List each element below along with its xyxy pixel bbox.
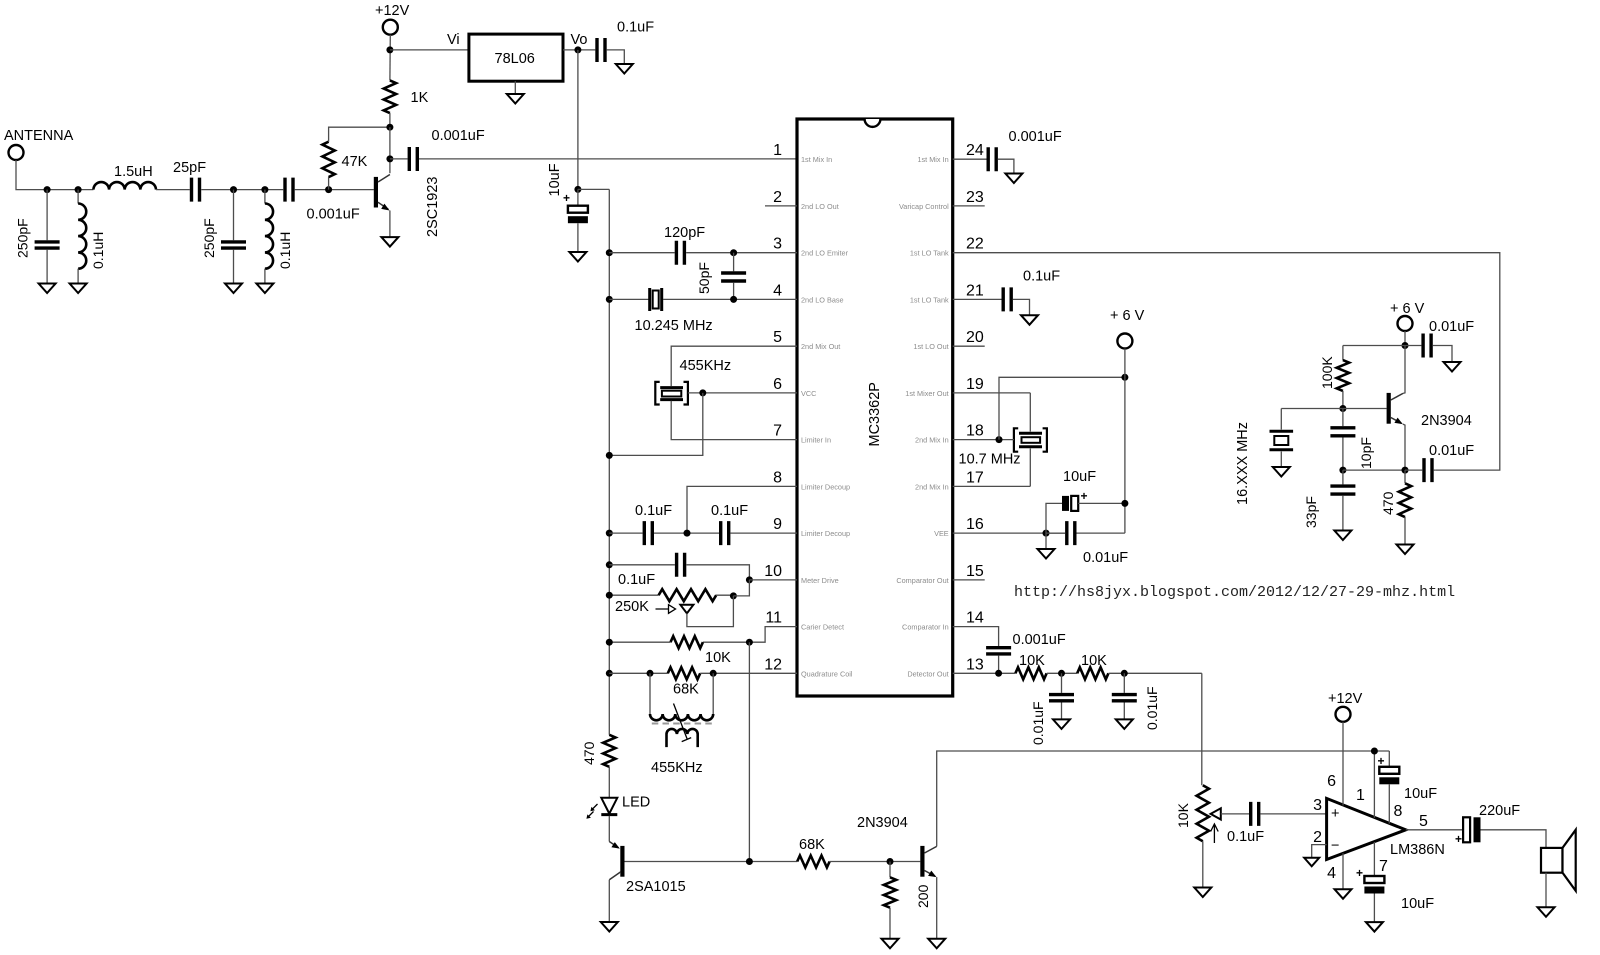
svg-text:0.01uF: 0.01uF	[1429, 319, 1474, 335]
ground (10K pot)	[1194, 888, 1211, 898]
wire crystal to pin 4	[663, 298, 797, 300]
wire to pin 9	[730, 532, 797, 534]
svg-text:250pF: 250pF	[15, 218, 31, 258]
wire carrier detect to base	[748, 642, 750, 861]
svg-text:2nd LO Emiter: 2nd LO Emiter	[801, 249, 849, 258]
svg-text:2SA1015: 2SA1015	[626, 879, 686, 895]
svg-text:68K: 68K	[799, 837, 825, 853]
svg-text:220uF: 220uF	[1479, 803, 1520, 819]
svg-text:470: 470	[581, 741, 597, 765]
node A2	[75, 186, 82, 193]
node collector / 0.001uF	[386, 155, 393, 162]
svg-text:1: 1	[1356, 787, 1365, 804]
LED D1	[601, 798, 617, 814]
node base/200	[887, 858, 894, 865]
svg-text:MC3362P: MC3362P	[867, 382, 883, 446]
svg-text:1st LO Tank: 1st LO Tank	[910, 249, 949, 258]
resistor 470 (LED)	[603, 735, 615, 767]
svg-text:5: 5	[773, 329, 782, 346]
node pin13	[995, 670, 1002, 677]
wire pin 11	[703, 627, 797, 643]
svg-text:+ 6 V: + 6 V	[1390, 301, 1425, 317]
svg-text:1st Mix In: 1st Mix In	[801, 155, 832, 164]
wire filter case to pin 6	[688, 392, 797, 394]
ceramic filter 455KHz	[660, 388, 683, 400]
ground (Vo bypass)	[616, 64, 633, 74]
wire +12V down	[389, 35, 391, 81]
node filter2	[1121, 670, 1128, 677]
svg-text:10pF: 10pF	[1358, 437, 1374, 469]
ground (pin7 cap)	[1366, 922, 1383, 932]
capacitor 33pF	[1342, 470, 1344, 484]
node 1K/47K/collector	[386, 124, 393, 131]
svg-text:0.001uF: 0.001uF	[307, 207, 360, 223]
10K wiper	[1211, 808, 1221, 819]
node 6V rail	[574, 186, 581, 193]
svg-text:2N3904: 2N3904	[857, 815, 908, 831]
svg-text:0.01uF: 0.01uF	[1429, 443, 1474, 459]
svg-text:1.5uH: 1.5uH	[114, 164, 153, 180]
wire pin 19	[953, 392, 1031, 394]
svg-text:50pF: 50pF	[696, 262, 712, 294]
pin 23 stub	[953, 205, 985, 207]
capacitor 10uF (bypass) electrolytic	[1388, 751, 1390, 767]
svg-text:13: 13	[966, 656, 984, 673]
wire Vo	[563, 49, 595, 51]
svg-text:21: 21	[966, 282, 984, 299]
resistor 68K (squelch)	[797, 856, 829, 868]
250K adjust arrow	[656, 605, 676, 614]
ground (78L06)	[514, 81, 516, 94]
node osc base	[1339, 405, 1346, 412]
svg-text:0.1uF: 0.1uF	[1227, 829, 1264, 845]
svg-text:22: 22	[966, 236, 984, 253]
capacitor 250pF (1st)	[46, 190, 48, 241]
svg-text:+: +	[563, 191, 570, 205]
capacitor 0.01uF (VEE)	[1067, 521, 1075, 545]
speaker SP1	[1541, 848, 1563, 873]
capacitor 0.1uF (pin21)	[1003, 287, 1011, 311]
node osc vcc	[1402, 342, 1409, 349]
pin 1 wire	[1373, 751, 1375, 818]
capacitor 10uF (VEE) electrolytic	[1046, 503, 1062, 533]
resistor 10K (carrier detect)	[671, 636, 703, 648]
svg-text:16: 16	[966, 516, 984, 533]
wire	[201, 189, 283, 191]
svg-text:Limiter In: Limiter In	[801, 436, 831, 445]
svg-text:10: 10	[764, 563, 782, 580]
svg-text:1: 1	[773, 142, 782, 159]
resistor 200	[889, 862, 891, 878]
ground (33pF)	[1334, 531, 1351, 541]
wire pin 13	[953, 672, 1016, 674]
wire Vo rail down	[577, 50, 579, 190]
wire 68K to 2N3904 base	[830, 861, 921, 863]
svg-text:0.1uF: 0.1uF	[635, 503, 672, 519]
svg-text:2nd Mix In: 2nd Mix In	[915, 436, 949, 445]
svg-text:0.1uH: 0.1uH	[90, 232, 106, 269]
capacitor 120pF	[676, 241, 684, 265]
node bus meter row	[606, 561, 613, 568]
ground (2SA1015)	[601, 922, 618, 932]
svg-text:+: +	[1455, 832, 1462, 846]
capacitor 0.001uF (comparator)	[986, 648, 1011, 654]
wire Vi to regulator	[390, 49, 469, 51]
wire divider to emitter	[1343, 469, 1405, 471]
capacitor 0.001uF (collector out)	[390, 158, 408, 160]
capacitor 0.01uF (af filter 2)	[1123, 673, 1125, 693]
resistor 1K	[384, 80, 396, 113]
ground (470 osc)	[1397, 545, 1414, 555]
pin 6 wire	[1342, 722, 1344, 806]
wire pin 21	[953, 298, 1002, 300]
svg-text:0.1uF: 0.1uF	[711, 503, 748, 519]
capacitor 0.01uF (osc out)	[1424, 458, 1432, 482]
ground (0.1uH 1st)	[70, 284, 87, 294]
ground (af filter 1)	[1053, 719, 1070, 729]
svg-text:2nd LO Out: 2nd LO Out	[801, 202, 839, 211]
antenna terminal	[9, 145, 24, 160]
svg-text:Vi: Vi	[447, 32, 460, 48]
250K wiper	[680, 605, 693, 614]
capacitor 0.01uF (osc vcc)	[1405, 345, 1421, 347]
svg-text:7: 7	[773, 423, 782, 440]
svg-text:4: 4	[773, 282, 782, 299]
svg-text:10uF: 10uF	[1404, 786, 1437, 802]
svg-text:12: 12	[764, 656, 782, 673]
ground (250pF 2nd)	[225, 284, 242, 294]
svg-text:+: +	[1356, 866, 1363, 880]
wire case to bus	[609, 393, 703, 456]
svg-text:0.1uF: 0.1uF	[618, 572, 655, 588]
resistor 470 (osc)	[1399, 483, 1411, 517]
wire pin9 row	[609, 532, 642, 534]
node filter1	[1058, 670, 1065, 677]
ground (10uF)	[569, 252, 586, 262]
potentiometer 250K	[609, 594, 658, 596]
node bus 250K	[606, 592, 613, 599]
IC U1 MC3362P body	[797, 119, 953, 696]
svg-text:24: 24	[966, 142, 984, 159]
svg-text:1st LO Out: 1st LO Out	[913, 342, 948, 351]
svg-text:250pF: 250pF	[201, 218, 217, 258]
node base 2SC1923	[325, 186, 332, 193]
capacitor 0.1uF (meter drive)	[609, 564, 675, 566]
ground (pin21)	[1021, 315, 1038, 325]
svg-text:6: 6	[1327, 773, 1336, 790]
svg-text:1K: 1K	[411, 90, 429, 106]
node Vi	[386, 46, 393, 53]
svg-text:VEE: VEE	[934, 529, 949, 538]
node pin6/case	[699, 389, 706, 396]
svg-text:ANTENNA: ANTENNA	[4, 128, 74, 144]
op-amp U2 LM386N	[1327, 798, 1406, 859]
capacitor 0.001uF (pin24)	[988, 147, 996, 171]
node Vo	[574, 46, 581, 53]
ground (crystal)	[1273, 467, 1290, 477]
svg-text:Comparator In: Comparator In	[902, 623, 949, 632]
svg-text:0.1uF: 0.1uF	[1023, 269, 1060, 285]
node bus 10K	[606, 639, 613, 646]
svg-text:−: −	[1331, 838, 1339, 854]
wire osc emitter	[1403, 424, 1405, 470]
node osc divider	[1339, 467, 1346, 474]
svg-text:Varicap Control: Varicap Control	[899, 202, 949, 211]
potentiometer 10K (volume)	[1197, 785, 1209, 841]
node bus pin3	[606, 249, 613, 256]
ground (pin16)	[1045, 533, 1047, 549]
svg-text:8: 8	[773, 469, 782, 486]
svg-text:Limiter Decoup: Limiter Decoup	[801, 482, 850, 491]
svg-text:1st LO Tank: 1st LO Tank	[910, 295, 949, 304]
svg-text:0.01uF: 0.01uF	[1144, 686, 1160, 730]
node bus pin4	[606, 296, 613, 303]
svg-text:19: 19	[966, 376, 984, 393]
wire osc collector	[1403, 346, 1405, 394]
svg-text:7: 7	[1379, 858, 1388, 875]
node pin8/pin9	[684, 530, 691, 537]
crystal 16.XXX MHz	[1281, 409, 1343, 430]
wire pin4 row	[609, 298, 648, 300]
svg-text:0.001uF: 0.001uF	[1009, 129, 1062, 145]
pin 15 stub	[953, 579, 985, 581]
wire 120pF to pin 3	[686, 252, 797, 254]
svg-text:10.245 MHz: 10.245 MHz	[635, 318, 713, 334]
wire pin 10	[749, 579, 797, 581]
node pin3/50pF	[730, 249, 737, 256]
wire antenna to filter	[16, 160, 93, 190]
svg-text:455KHz: 455KHz	[651, 760, 703, 776]
svg-text:23: 23	[966, 189, 984, 206]
pin 4 ground	[1342, 853, 1344, 889]
svg-text:18: 18	[966, 423, 984, 440]
wire pin 22 to oscillator	[953, 253, 1500, 470]
svg-text:10uF: 10uF	[1063, 469, 1096, 485]
node pin1/bypass	[1371, 748, 1378, 755]
ground (2N3904 emitter)	[928, 939, 945, 949]
svg-text:10.7 MHz: 10.7 MHz	[959, 452, 1021, 468]
transistor 2SA1015	[609, 842, 618, 848]
svg-text:VCC: VCC	[801, 389, 816, 398]
svg-text:+ 6 V: + 6 V	[1110, 308, 1145, 324]
svg-text:+12V: +12V	[1328, 691, 1363, 707]
svg-text:+: +	[1081, 489, 1088, 503]
svg-text:10K: 10K	[1175, 802, 1191, 828]
svg-text:0.01uF: 0.01uF	[1030, 701, 1046, 745]
capacitor 0.1uF (limiter decoup 1)	[644, 521, 652, 545]
node A1	[44, 186, 51, 193]
svg-text:+: +	[1378, 754, 1385, 768]
capacitor 10pF	[1342, 409, 1344, 427]
svg-text:10K: 10K	[705, 650, 731, 666]
svg-text:http://hs8jyx.blogspot.com/201: http://hs8jyx.blogspot.com/2012/12/27-29…	[1014, 584, 1455, 601]
wire af to volume	[1201, 673, 1203, 785]
pin 20 stub	[953, 345, 985, 347]
node pin16	[1043, 530, 1050, 537]
svg-text:10K: 10K	[1019, 653, 1045, 669]
ground (af filter 2)	[1116, 719, 1133, 729]
inductor 0.1uH (1st)	[77, 190, 79, 204]
capacitor 0.1uF (Vo bypass)	[597, 38, 605, 62]
node bus 455KHz	[606, 452, 613, 459]
capacitor 25pF	[192, 178, 200, 202]
node 68K left	[647, 670, 654, 677]
svg-text:0.1uH: 0.1uH	[277, 232, 293, 269]
quadrature coil 455KHz	[650, 673, 713, 714]
ground (250pF 1st)	[39, 284, 56, 294]
wire wiper to cap	[1221, 813, 1249, 815]
crystal 10.7 MHz	[1029, 393, 1031, 487]
resistor 10K (1st)	[1015, 667, 1046, 679]
svg-text:2: 2	[773, 189, 782, 206]
svg-text:0.01uF: 0.01uF	[1083, 550, 1128, 566]
svg-text:Quadrature Coil: Quadrature Coil	[801, 669, 853, 678]
ground (osc vcc)	[1444, 362, 1461, 372]
svg-text:1st Mix In: 1st Mix In	[917, 155, 948, 164]
node A3	[230, 186, 237, 193]
wire pin3 row	[609, 252, 674, 254]
svg-text:3: 3	[1313, 797, 1322, 814]
svg-text:Detector Out: Detector Out	[907, 669, 948, 678]
svg-text:Meter Drive: Meter Drive	[801, 576, 839, 585]
svg-text:8: 8	[1394, 803, 1403, 820]
svg-text:1st Mixer Out: 1st Mixer Out	[905, 389, 948, 398]
svg-text:2SC1923: 2SC1923	[425, 177, 441, 237]
pin 7 wire	[1373, 842, 1375, 876]
wire 2N3904 collector	[937, 751, 1390, 846]
svg-text:+: +	[1331, 806, 1339, 822]
svg-text:14: 14	[966, 610, 984, 627]
wire 6V rail to bus	[578, 188, 609, 190]
regulator 78L06	[469, 34, 563, 81]
svg-text:0.1uF: 0.1uF	[617, 20, 654, 36]
ground (0.1uH 2nd)	[256, 284, 273, 294]
svg-text:LM386N: LM386N	[1390, 842, 1445, 858]
svg-text:10uF: 10uF	[1401, 896, 1434, 912]
svg-text:250K: 250K	[615, 599, 649, 615]
wire pin 17	[953, 485, 1031, 487]
wire pin 8	[687, 486, 797, 533]
vertical bus wire	[608, 189, 610, 734]
svg-text:20: 20	[966, 329, 984, 346]
wire	[654, 532, 719, 534]
svg-text:5: 5	[1419, 813, 1428, 830]
capacitor 0.1uF (af in)	[1251, 802, 1259, 826]
wire 68K to pin 12	[700, 672, 797, 674]
wire 2SA1015 base	[625, 861, 798, 863]
svg-text:47K: 47K	[342, 154, 368, 170]
transistor 2N3904 (squelch)	[920, 846, 924, 877]
svg-text:200: 200	[915, 884, 931, 908]
svg-text:+12V: +12V	[375, 3, 410, 19]
svg-text:10uF: 10uF	[547, 163, 563, 196]
LED arrows	[588, 804, 598, 817]
capacitor 10uF electrolytic	[577, 189, 579, 205]
wire to IC pin 1	[419, 158, 797, 160]
svg-text:0.001uF: 0.001uF	[1013, 632, 1066, 648]
resistor 68K (quadrature)	[668, 667, 700, 679]
svg-text:17: 17	[966, 469, 984, 486]
node pin10	[746, 576, 753, 583]
wire 250K to pin10 node	[733, 580, 749, 596]
pin 2 stub	[765, 205, 797, 207]
svg-text:LED: LED	[622, 795, 650, 811]
svg-text:Comparator Out: Comparator Out	[896, 576, 948, 585]
svg-text:11: 11	[765, 610, 782, 627]
wire collector	[389, 127, 391, 173]
wire pin 16	[953, 532, 1065, 534]
pin 5 output wire	[1406, 829, 1463, 831]
svg-text:470: 470	[1380, 491, 1396, 515]
svg-text:33pF: 33pF	[1303, 496, 1319, 528]
svg-text:10K: 10K	[1081, 653, 1107, 669]
svg-text:2N3904: 2N3904	[1421, 413, 1472, 429]
svg-text:78L06: 78L06	[495, 51, 535, 67]
resistor 47K	[328, 177, 330, 190]
node pin18	[996, 436, 1003, 443]
resistor 100K	[1343, 346, 1405, 361]
node pin4/50pF	[730, 296, 737, 303]
svg-text:2nd Mix Out: 2nd Mix Out	[801, 342, 840, 351]
node 68K right	[710, 670, 717, 677]
svg-text:455KHz: 455KHz	[680, 358, 732, 374]
capacitor 0.001uF (base coupling)	[285, 178, 293, 202]
wire pin 5	[671, 346, 797, 386]
svg-text:15: 15	[966, 563, 984, 580]
node 250K right	[730, 592, 737, 599]
node pin11/10K	[746, 639, 753, 646]
svg-text:Carier Detect: Carier Detect	[801, 623, 844, 632]
svg-text:120pF: 120pF	[664, 225, 705, 241]
wire pin 18	[953, 439, 1014, 441]
svg-text:16.XXX MHz: 16.XXX MHz	[1235, 422, 1251, 505]
wire filter to pin 7	[671, 401, 797, 440]
svg-text:6: 6	[773, 376, 782, 393]
pin 2 ground	[1312, 845, 1327, 858]
svg-text:2: 2	[1313, 829, 1322, 846]
ground (200)	[882, 939, 899, 949]
wire pin 24	[953, 158, 987, 160]
capacitor 0.1uF (limiter decoup 2)	[721, 521, 729, 545]
node 6V/10uF	[1121, 500, 1128, 507]
ground (2SC1923 emitter)	[381, 237, 398, 247]
crystal 10.245 MHz	[650, 288, 662, 311]
ground (pin24)	[1005, 174, 1022, 184]
node 6V/pin18	[1121, 374, 1128, 381]
wire pin12 row	[609, 672, 668, 674]
node A4	[261, 186, 268, 193]
svg-text:25pF: 25pF	[173, 160, 206, 176]
resistor 10K (2nd)	[1077, 667, 1108, 679]
ground (speaker)	[1538, 907, 1555, 917]
svg-text:68K: 68K	[673, 682, 699, 698]
node bus pin9	[606, 530, 613, 537]
svg-text:2nd Mix In: 2nd Mix In	[915, 482, 949, 491]
transistor 2SC1923	[374, 177, 378, 208]
svg-text:0.001uF: 0.001uF	[432, 128, 485, 144]
capacitor 10uF (pin7) electrolytic	[1364, 876, 1384, 883]
svg-text:3: 3	[773, 236, 782, 253]
inductor 1.5uH	[93, 182, 156, 190]
node base/detect	[746, 858, 753, 865]
wire	[156, 189, 190, 191]
inductor 0.1uH (2nd)	[264, 190, 266, 204]
svg-text:Vo: Vo	[571, 32, 588, 48]
svg-text:4: 4	[1327, 865, 1336, 882]
node bus 68K	[606, 670, 613, 677]
node osc emitter	[1402, 467, 1409, 474]
capacitor 220uF electrolytic	[1463, 817, 1470, 842]
